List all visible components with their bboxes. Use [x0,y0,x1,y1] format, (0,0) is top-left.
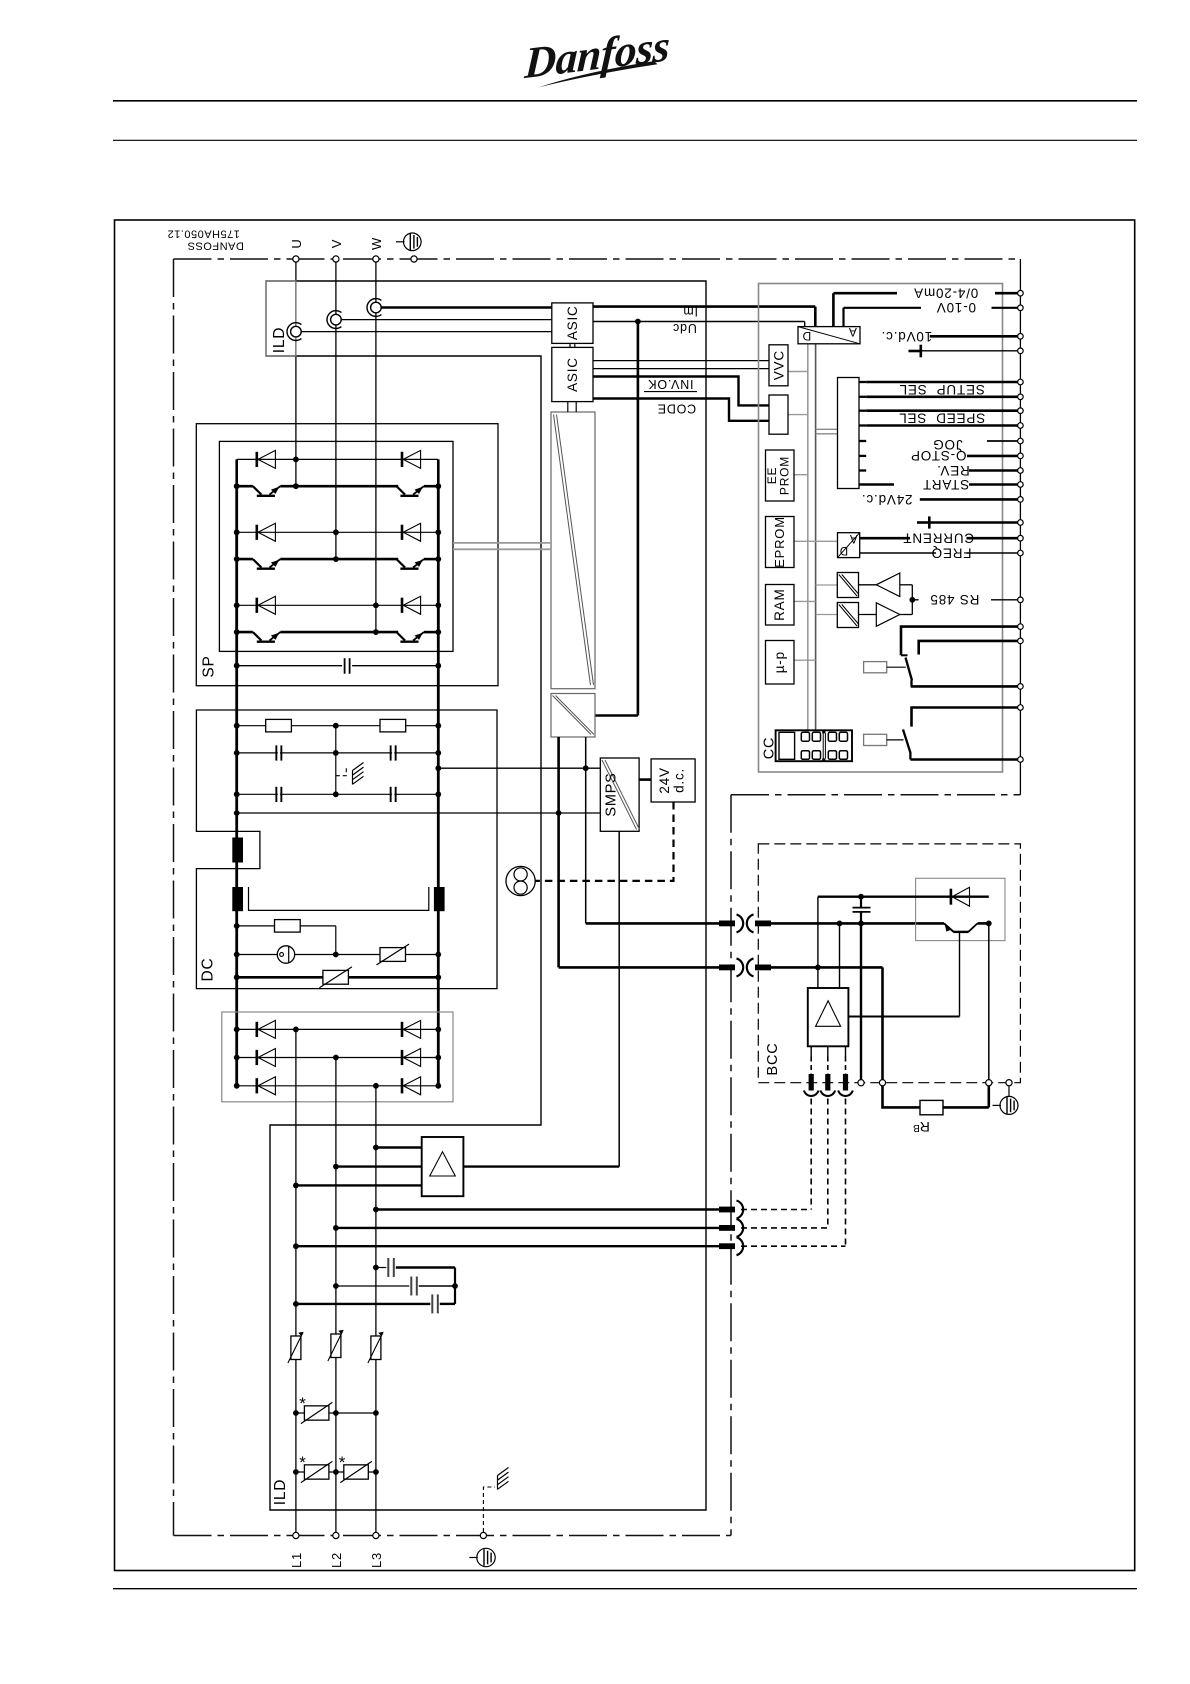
svg-text:175HA050.12: 175HA050.12 [167,227,240,239]
bus stub interface [788,414,808,416]
terminal 4 [1018,348,1024,354]
wire driver feed vertical [817,897,819,988]
gate bus to inverter [453,542,551,544]
svg-text:DC: DC [199,958,216,982]
wire mains L2 vertical [335,1058,337,1536]
EMC shield boundary left [173,259,175,1536]
relay1 coil [864,662,887,673]
rectifier diode row3 left [237,1085,439,1087]
wire JOG [987,440,1018,442]
DC choke 2 [232,887,243,911]
EPROM block [766,517,795,568]
wire CODE [593,399,769,421]
transformer option symbol [506,866,535,895]
svg-text:SETUP SEL: SETUP SEL [899,382,985,397]
wire SPEED SEL a [866,409,1018,412]
relay1 arm [906,658,913,681]
svg-text:DANFOSS: DANFOSS [187,240,244,252]
wire phase U [295,262,297,486]
svg-text:EPROM: EPROM [772,516,787,568]
terminal 17 [1018,597,1024,603]
wire isolation feed a [557,737,560,967]
connector L3 [719,1207,735,1213]
svg-text:V: V [329,239,344,248]
wire INV.OK [593,377,769,406]
brake driver box [808,988,849,1046]
node Udc junction [635,319,641,325]
svg-text:Q-STOP: Q-STOP [910,448,966,463]
inverter IGBT row3 left [237,631,253,634]
power card outline [266,281,706,1510]
node rectifier tap row1 [293,1027,299,1033]
wire stub left row1 [235,459,238,486]
wire inrush in L3 [376,1146,422,1148]
DC section box [196,710,497,989]
chassis ground bottom dashed [483,1487,495,1532]
terminal 16 [1018,550,1024,556]
bus line 2 [815,343,817,731]
wire L3 to BCC [376,1208,719,1210]
varistor row2 b [344,1465,369,1479]
wire brake feed 2 [559,966,719,969]
digital input header [838,378,860,489]
bus stub opto2 [816,614,838,616]
footer rule [113,1588,1137,1590]
varistor row2 a [296,1471,376,1473]
wire SMPS to inrush driver [618,831,620,1166]
outer frame [115,220,1135,1571]
bus stub uP [794,659,816,661]
inrush driver box [422,1137,464,1196]
terminal 18 [1018,624,1024,630]
BCC terminal 1 [858,1080,864,1086]
svg-text:D: D [802,329,811,343]
wire phase W [375,262,377,632]
svg-text:FREQ: FREQ [931,545,972,560]
wire inrush supply [463,1165,619,1167]
connector L1 [719,1243,735,1249]
wire sensor U to ASIC [301,331,551,333]
terminal L1 [293,1532,299,1538]
inverter freewheel diode row2 left [237,531,439,533]
DC choke 3 [434,887,445,911]
svg-text:CURRENT: CURRENT [902,530,974,545]
wire analog out 0-10V [842,308,844,327]
brake IGBT [944,923,954,931]
wire isolation feed b [585,737,587,923]
SMPS block [600,758,639,831]
wire analog out 0/4-20mA [832,293,835,326]
wire dashed L3 link [741,1209,811,1211]
terminal V [333,256,339,262]
wire ASIC to VVC b [593,368,769,370]
terminal 14 [1018,520,1024,526]
opto coupler 2 [837,603,858,628]
terminal 6 [1018,394,1024,400]
BCC terminal PE [1006,1080,1012,1086]
svg-text:A: A [848,325,857,339]
RFI capacitor L1 [296,1303,430,1305]
terminal W [373,256,379,262]
wire 10V dc [930,335,1018,338]
wire L2 to BCC [336,1227,719,1229]
thermal switch [237,954,336,956]
inverter freewheel diode row1 left [237,458,439,460]
current sensor W [367,299,381,317]
svg-text:L2: L2 [329,1552,344,1568]
chassis ground DC [353,763,364,771]
relay2 arm [903,730,911,754]
wire inrush in L2 [336,1165,422,1167]
wire SMPS to 24V [639,778,651,781]
DA converter 2 [838,533,860,558]
inrush resistor [237,925,336,927]
svg-text:REV.: REV. [936,463,969,478]
rectifier module box [222,1012,453,1102]
relay1 NC contact [919,641,1018,655]
24V dc supply box [651,759,695,802]
svg-text:L1: L1 [289,1552,304,1568]
wire brake minus vertical [860,923,862,1082]
inverter IGBT row1 right [397,486,406,494]
terminal L2 [333,1532,339,1538]
wire brake output [988,923,990,1082]
EMC shield boundary top [174,258,1021,260]
svg-text:SP: SP [200,655,217,677]
svg-text:START: START [922,477,969,492]
RAM block [766,585,795,626]
inverter IGBT row2 left [237,558,253,561]
DC bus capacitor [237,665,342,667]
inverter module box [219,441,453,651]
wire L1 to BCC [296,1245,719,1247]
brake freewheel diode [950,889,953,905]
inverter freewheel diode row3 left [237,604,439,606]
PE symbol bottom [477,1548,495,1566]
inverter IGBT row2 right [397,559,406,567]
electrolytic capacitor bank row2 [237,793,439,795]
svg-text:*: * [339,1453,346,1472]
svg-text:VVC: VVC [771,350,786,380]
wire START [969,483,1018,486]
wire Q-STOP [967,455,1018,458]
inverter IGBT row1 left [237,485,253,488]
wire CURRENT [860,537,910,540]
svg-text:10Vd.c.: 10Vd.c. [881,329,932,344]
DC choke 1 [232,838,243,863]
svg-text:CODE: CODE [657,401,696,415]
svg-text:*: * [299,1394,306,1413]
bus stub header [816,428,838,430]
wire sensor V to ASIC [341,319,551,321]
RFI capacitor L3 [376,1267,386,1269]
BCC box dashed [758,844,1020,1083]
rectifier diode row1 left [237,1028,439,1030]
wire phase V [335,262,337,559]
wire stub left row3 [235,605,238,632]
wire Udc signal [593,321,805,323]
microprocessor block [766,641,795,685]
connector brake 1 [719,921,735,927]
Danfoss logo [516,20,676,89]
svg-text:*: * [299,1453,306,1472]
svg-text:µ-p: µ-p [772,651,787,673]
MOV L2 [331,1334,341,1358]
NTC varistor 1 [336,954,439,956]
node phase tap row1 [293,457,299,463]
rectifier diode row2 right [401,1050,404,1065]
svg-text:BCC: BCC [765,1042,781,1075]
ILD sensor block box [266,281,296,356]
header rule 1 [113,100,1137,102]
svg-text:0/4-20mA: 0/4-20mA [913,286,978,301]
wire driver to ASIC [567,402,569,412]
EMC shield boundary inner horizontal [731,794,1020,796]
isolation block [551,694,595,738]
svg-text:SPEED SEL: SPEED SEL [898,410,985,425]
bus stub EPROM to DA [794,540,838,542]
brake IGBT module box [916,878,1005,940]
wire REV [969,469,1018,472]
terminal U [293,256,299,262]
DC- rail [437,486,440,1086]
connector brake 2 [719,965,735,971]
varistor row1 [296,1412,376,1414]
svg-text:D: D [839,544,848,556]
svg-text:RS 485: RS 485 [930,592,980,607]
wire brake feed 1 [586,922,719,925]
brake resistor RB [920,1100,943,1114]
inverter freewheel diode row2 right [401,525,404,540]
brake driver pins [810,1046,812,1056]
MOV L1 [291,1336,301,1360]
terminal 7 [1018,408,1024,414]
common symbol 1 [922,350,1018,352]
bus stub EEPROM [794,474,808,476]
balance resistor R1 [237,725,439,727]
terminal 8 [1018,423,1024,429]
control card box [759,284,1003,773]
svg-text:Im: Im [683,304,699,318]
wire RFI cap star point [454,1268,456,1304]
interface block [769,395,788,434]
current sensor V [327,311,341,329]
PE terminal top [411,256,417,262]
header rule 2 [113,139,1137,141]
wire brake gate drive [848,1016,959,1018]
chassis ground bottom [498,1468,509,1476]
inverter IGBT row3 right [397,632,406,640]
wire cap midpoint [335,726,337,795]
wire stub right row2 [437,532,440,559]
terminal 3 [1018,334,1024,340]
terminal strip line [1019,259,1021,795]
bus stub opto1 [816,584,838,586]
svg-text:L3: L3 [369,1552,384,1568]
wire Udc to isolation [637,322,640,716]
inverter freewheel diode row1 right [401,452,404,467]
terminal 15 [1018,535,1024,541]
wire DC- to SMPS [438,767,600,769]
brake feed line [237,976,439,979]
connector L2 [719,1225,735,1231]
EMC shield boundary inner vertical [730,795,732,1536]
wire SPEED SEL b [866,424,1018,427]
wire SETUP SEL a [866,381,1018,384]
SP section box [196,424,498,686]
wire stub left row2 [235,532,238,559]
bus line 1 [807,343,809,731]
wire DC+ to SMPS [237,812,601,814]
EEPROM block [766,450,795,501]
terminal 11 [1018,468,1024,474]
node phase tap row3 [373,602,379,608]
choke core link [249,887,429,910]
wire dashed L2 link [741,1227,828,1229]
terminal 19 [1018,638,1024,644]
wire FREQ [860,552,936,554]
wire mains L1 vertical [295,1029,297,1535]
gate driver board [551,412,595,689]
balance resistor R2 [380,719,406,732]
terminal 20 [1018,684,1024,690]
brake rail top [818,896,989,898]
wire RS485 [912,599,918,601]
svg-text:A: A [849,532,857,544]
wire SETUP SEL b [866,395,1018,398]
svg-text:ASIC: ASIC [565,357,580,392]
ASIC U1 [552,303,593,344]
bus stub VVC [788,371,808,373]
wire ASIC to VVC a [593,360,769,362]
wire sensor W to ASIC [381,306,551,309]
terminal 9 [1018,438,1024,444]
wire Im signal [593,305,815,308]
node rectifier tap row2 [333,1055,339,1061]
ASIC U2 [552,347,593,401]
BCC terminal 3 [986,1080,992,1086]
relay2 NO contact [912,708,1018,727]
wire inrush in L1 [296,1184,422,1186]
node rectifier tap row3 [373,1083,379,1089]
terminal L3 [373,1532,379,1538]
terminal 10 [1018,453,1024,459]
relay2 common [909,753,911,760]
RFI capacitor L2 [336,1285,409,1287]
terminal 1 [1018,290,1024,296]
RS485 buffer out [876,573,900,597]
brake snubber capacitor [853,907,871,909]
LCP connector [776,730,852,761]
svg-text:0-10V: 0-10V [936,300,976,315]
svg-text:Udc: Udc [672,321,697,335]
wire stub right row1 [437,459,440,486]
VVC block [769,345,788,386]
relay1 common [910,680,912,686]
terminal 5 [1018,379,1024,385]
svg-text:ILD: ILD [271,327,288,354]
common symbol 2 [931,521,1018,524]
relay2 coil [864,734,887,745]
rectifier diode row2 left [237,1057,439,1059]
terminal 21 [1018,705,1024,711]
rectifier diode row1 right [401,1022,404,1037]
terminal 13 [1018,497,1024,503]
svg-text:SMPS: SMPS [604,772,620,816]
bus stub RAM [794,600,816,602]
svg-text:24Vd.c.: 24Vd.c. [657,767,686,793]
svg-text:RAM: RAM [772,588,787,620]
wire 24Vdc [920,498,1018,501]
svg-text:INV.OK: INV.OK [647,377,693,391]
terminal 2 [1018,305,1024,311]
chassis tap dashed [336,768,347,776]
terminal 22 [1018,757,1024,763]
MOV L3 [371,1336,381,1360]
BCC terminal 2 [879,1080,885,1086]
node phase tap row2 [333,529,339,535]
NTC varistor 2 [323,970,349,984]
wire ASIC link [569,343,571,347]
wire 24V dashed [535,802,673,881]
relay1 NO contact [901,627,1018,656]
RS485 buffer in [876,603,900,627]
terminal 12 [1018,482,1024,488]
PE terminal bottom [480,1532,486,1538]
PE symbol BCC [1008,1086,1010,1096]
wire RS485 internal [859,584,877,586]
EMC shield boundary bottom [174,1535,732,1537]
DA converter 1 [798,327,860,344]
svg-text:ASIC: ASIC [565,305,580,340]
inverter freewheel diode row3 right [401,598,404,613]
opto coupler 1 [837,573,858,598]
electrolytic capacitor bank row1 [237,752,439,754]
svg-text:ILD: ILD [272,1479,289,1506]
wire to brake resistor RB [883,967,989,1107]
svg-text:24Vd.c.: 24Vd.c. [861,492,912,507]
wire dashed L1 link [741,1245,846,1247]
wire stub right row3 [437,605,440,632]
svg-text:W: W [369,237,384,250]
svg-text:U: U [289,238,304,248]
current sensor U [287,323,301,341]
wire mains L3 vertical [375,1086,377,1536]
wire gate vertical [839,923,841,988]
rectifier diode row3 right [401,1078,404,1093]
PE symbol top [404,233,422,251]
DC+ rail [235,486,238,1086]
